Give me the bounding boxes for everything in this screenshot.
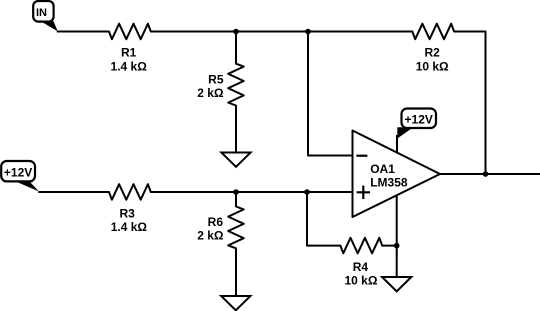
svg-text:10 kΩ: 10 kΩ xyxy=(416,60,449,74)
svg-text:10 kΩ: 10 kΩ xyxy=(345,274,378,288)
svg-text:R5: R5 xyxy=(208,73,224,87)
svg-text:2 kΩ: 2 kΩ xyxy=(197,86,224,100)
svg-text:R2: R2 xyxy=(425,46,441,60)
svg-text:+12V: +12V xyxy=(4,165,32,179)
svg-text:R4: R4 xyxy=(353,260,369,274)
svg-text:1.4 kΩ: 1.4 kΩ xyxy=(111,60,148,74)
svg-text:+12V: +12V xyxy=(405,112,433,126)
svg-text:1.4 kΩ: 1.4 kΩ xyxy=(111,220,148,234)
svg-text:IN: IN xyxy=(36,7,47,19)
svg-text:R3: R3 xyxy=(120,207,136,221)
svg-text:R1: R1 xyxy=(121,46,137,60)
svg-text:OA1: OA1 xyxy=(370,162,395,176)
svg-text:LM358: LM358 xyxy=(370,175,408,189)
svg-text:R6: R6 xyxy=(208,215,224,229)
svg-text:2 kΩ: 2 kΩ xyxy=(197,229,224,243)
